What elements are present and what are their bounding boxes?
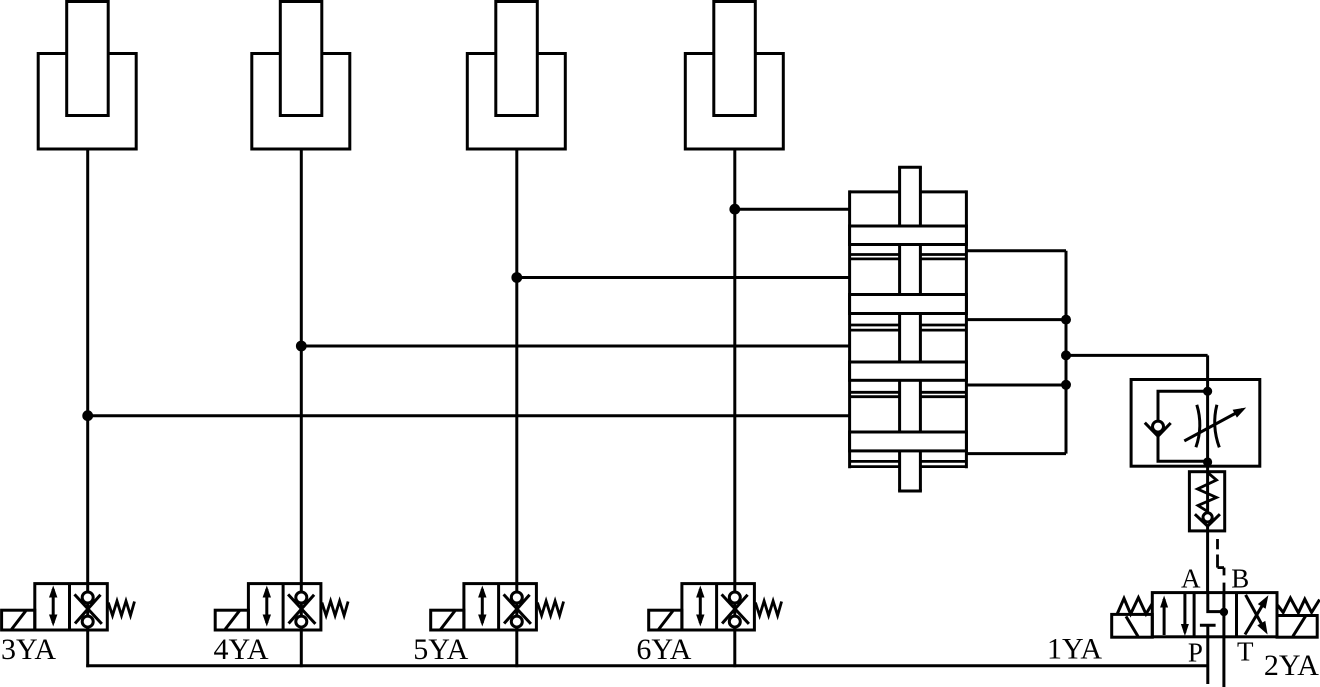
spring left end: [1117, 598, 1152, 614]
wire from series cylinder section 4 outlet: [966, 452, 1066, 455]
valve 5YA return spring: [537, 601, 563, 616]
series-cylinder piston 2: [850, 295, 967, 314]
cylinder C1 body: [38, 54, 136, 150]
svg-text:1YA: 1YA: [1047, 633, 1102, 666]
valve 3YA check position symbol: [75, 592, 102, 627]
wire check valve bypass branch: [1158, 391, 1208, 461]
wire main line through throttle valve: [1206, 355, 1209, 513]
svg-text:A: A: [1181, 564, 1201, 594]
series-cylinder piston 3: [850, 362, 967, 380]
wire right collector bus: [1065, 251, 1068, 454]
wire port P down: [1206, 637, 1209, 684]
wire branch to series cylinder section 1: [735, 208, 850, 211]
wire branch to series cylinder section 3: [301, 345, 849, 348]
section divider 2b: [850, 329, 967, 332]
svg-text:6YA: 6YA: [636, 633, 691, 666]
spring check valve enclosure: [1189, 472, 1224, 531]
svg-text:T: T: [1237, 637, 1254, 667]
node bus junction 1: [1061, 315, 1071, 325]
section divider 1a: [850, 253, 967, 256]
solenoid 6YA coil: [649, 610, 682, 630]
wire port T down: [1222, 637, 1225, 687]
wire check valve to directional valve port A: [1206, 524, 1209, 593]
valve 4YA body: [248, 584, 321, 630]
valve 5YA body: [464, 584, 537, 630]
wire from series cylinder section 2 outlet: [966, 318, 1066, 321]
wire feed to throttle valve: [1066, 354, 1208, 357]
wire valve 3YA outlet down: [86, 630, 89, 667]
valve 6YA body: [682, 584, 755, 630]
section divider 1b: [850, 257, 967, 260]
series-cylinder right wall: [965, 190, 968, 468]
wire from cylinder C2 down to valve: [300, 149, 303, 584]
series-cylinder bottom plate a: [850, 460, 967, 463]
spring check valve spring: [1198, 473, 1217, 512]
svg-text:3YA: 3YA: [1, 633, 56, 666]
throttle orifice arcs: [1196, 405, 1219, 448]
wire from series cylinder section 1 outlet: [966, 249, 1066, 252]
spring check valve ball: [1203, 513, 1212, 522]
valve 4YA port line: [300, 584, 303, 630]
valve 6YA open position arrow: [696, 586, 704, 627]
valve 3YA port line: [86, 584, 89, 630]
wire branch to series cylinder section 2: [517, 276, 850, 279]
solenoid 2YA coil: [1277, 616, 1317, 638]
cylinder C2 body: [252, 54, 350, 150]
valve 6YA port line: [733, 584, 736, 630]
valve 6YA check position symbol: [722, 592, 749, 627]
valve 5YA open position arrow: [478, 586, 486, 627]
one-way throttle valve enclosure: [1131, 380, 1260, 467]
cylinder C4 body: [685, 54, 783, 150]
series-cylinder piston 4: [850, 432, 967, 451]
valve 4YA open position arrow: [263, 586, 271, 627]
wire from cylinder C4 down to valve: [733, 149, 736, 584]
solenoid 4YA coil: [215, 610, 248, 630]
wire valve 4YA outlet down: [300, 630, 303, 667]
solenoid 1YA coil: [1112, 614, 1153, 637]
wire branch to series cylinder section 4: [88, 414, 850, 417]
node bus junction 3: [1061, 380, 1071, 390]
series-cylinder rod: [898, 167, 922, 491]
cylinder C2 plunger: [280, 2, 322, 116]
wire from cylinder C3 down to valve: [515, 149, 518, 584]
series-cylinder bottom plate b: [850, 465, 967, 468]
valve 3YA open position arrow: [49, 586, 57, 627]
section divider 3b: [850, 395, 967, 398]
section divider 2a: [850, 324, 967, 327]
valve 3YA body: [35, 584, 108, 630]
svg-text:4YA: 4YA: [214, 633, 269, 666]
cylinder C3 body: [467, 54, 565, 150]
check valve seat: [1145, 423, 1171, 437]
node junction on cylinder C3 line: [511, 272, 522, 283]
section divider 3a: [850, 391, 967, 394]
solenoid 5YA coil: [431, 610, 464, 630]
valve 3YA return spring: [108, 601, 134, 616]
directional valve body: [1152, 593, 1277, 637]
node junction on cylinder C4 line: [729, 204, 740, 215]
spring right end: [1278, 598, 1320, 613]
directional valve centre position: [1200, 593, 1224, 637]
wire from cylinder C1 down to valve: [86, 149, 89, 584]
cylinder C4 plunger: [714, 2, 756, 116]
valve 6YA return spring: [755, 601, 781, 616]
node junction on cylinder C1 line: [82, 410, 93, 421]
series-cylinder top plate: [850, 190, 967, 193]
svg-text:B: B: [1231, 564, 1249, 594]
directional valve left position arrows: [1160, 594, 1189, 636]
pilot drain dashed line: [1218, 539, 1225, 593]
valve 5YA check position symbol: [504, 592, 531, 627]
valve 5YA port line: [515, 584, 518, 630]
solenoid 3YA coil: [2, 610, 35, 630]
valve 4YA check position symbol: [288, 592, 315, 627]
cylinder C3 plunger: [496, 2, 538, 116]
series-cylinder left wall: [848, 190, 851, 468]
node throttle bottom junction: [1203, 457, 1212, 466]
node centre position junction: [1220, 608, 1228, 616]
series-cylinder piston 1: [850, 226, 967, 245]
valve 4YA return spring: [322, 601, 348, 616]
svg-text:2YA: 2YA: [1264, 649, 1319, 682]
svg-text:P: P: [1188, 638, 1203, 668]
node throttle top junction: [1203, 387, 1212, 396]
node junction on cylinder C2 line: [296, 341, 307, 352]
check valve ball in bypass: [1153, 421, 1164, 432]
wire from series cylinder section 3 outlet: [966, 384, 1066, 387]
cylinder C1 plunger: [67, 2, 109, 116]
svg-text:5YA: 5YA: [413, 633, 468, 666]
wire bottom supply bus: [86, 664, 1207, 667]
wire valve 5YA outlet down: [515, 630, 518, 667]
node bus junction 2: [1061, 350, 1071, 360]
wire valve 6YA outlet down: [733, 630, 736, 667]
directional valve right position crossed arrows: [1245, 595, 1268, 635]
throttle adjustment arrow: [1184, 408, 1246, 441]
spring check valve seat: [1195, 514, 1220, 526]
